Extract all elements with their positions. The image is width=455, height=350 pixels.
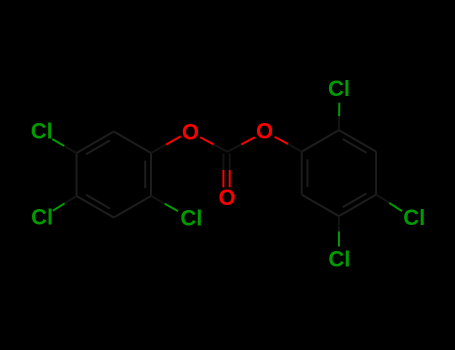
bond O-C1 (right aryl ester) bbox=[275, 137, 289, 144]
bond C5-Cl (top-left) bbox=[52, 139, 64, 146]
svg-text:Cl: Cl bbox=[180, 206, 202, 231]
wire inner double-bond line (right ring) bbox=[343, 193, 367, 207]
wire bond LR-B (right ring, double) bbox=[339, 195, 376, 217]
wire bond C1-C2 (left ring, double) bbox=[150, 153, 152, 196]
wire bond C2-C3 (left ring) bbox=[114, 196, 151, 218]
wire inner double-bond line (right ring) bbox=[307, 159, 309, 187]
wire bond C3-C4 (left ring, double) bbox=[77, 196, 114, 218]
wire bond B-LL (right ring) bbox=[302, 195, 339, 217]
bond B-Cl (right ring bottom) bbox=[338, 231, 340, 246]
svg-text:Cl: Cl bbox=[31, 119, 53, 144]
bond LR-Cl (right ring right) bbox=[389, 203, 402, 211]
bond C4-Cl (bottom-left) bbox=[53, 203, 65, 210]
bond C2-Cl (left ring lower-right) bbox=[165, 204, 179, 212]
svg-text:O: O bbox=[256, 119, 273, 144]
bond C1-O (left aryl ester) bbox=[166, 136, 181, 144]
wire inner double-bond line (left ring) bbox=[86, 195, 110, 209]
svg-text:Cl: Cl bbox=[403, 205, 425, 230]
wire inner double-bond line (right ring) bbox=[343, 139, 367, 153]
svg-text:O: O bbox=[218, 185, 235, 210]
bond T-Cl (right ring top) bbox=[338, 103, 340, 117]
bond C=O carbonyl double bond bbox=[222, 154, 224, 171]
svg-text:Cl: Cl bbox=[328, 76, 350, 101]
wire bond C6-C1 (left ring) bbox=[114, 132, 151, 154]
wire bond UR-LR (right ring) bbox=[375, 152, 377, 195]
wire bond UL-T (right ring) bbox=[302, 130, 339, 152]
svg-text:Cl: Cl bbox=[31, 204, 53, 229]
wire bond C5-C6 (left ring, double) bbox=[77, 132, 114, 154]
wire inner double-bond line (left ring) bbox=[86, 140, 110, 154]
svg-text:O: O bbox=[182, 120, 199, 145]
wire bond LL-UL (right ring, double) bbox=[301, 152, 303, 195]
svg-text:Cl: Cl bbox=[328, 247, 350, 272]
wire bond C4-C5 (left ring) bbox=[76, 153, 78, 196]
bond O-C carbonate (left) bbox=[200, 137, 214, 144]
wire inner double-bond line (left ring) bbox=[144, 161, 146, 189]
bond O-C carbonate (right) bbox=[241, 137, 255, 144]
wire bond T-UR (right ring, double) bbox=[339, 130, 376, 152]
